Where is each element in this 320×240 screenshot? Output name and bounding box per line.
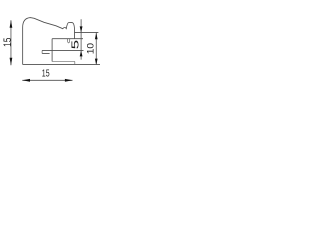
right lower edge xyxy=(74,61,76,64)
dim 15 bottom left arrow xyxy=(22,79,30,82)
rabbet wall xyxy=(51,39,53,62)
dim 10 bottom arrow xyxy=(95,59,98,65)
inner ledge xyxy=(52,60,75,62)
svg-text:5: 5 xyxy=(71,39,82,49)
step left end vertical xyxy=(41,50,43,53)
dim 5 bottom arrow xyxy=(80,50,83,56)
profile outline top xyxy=(23,18,75,65)
dim 5 line xyxy=(80,19,82,59)
svg-text:15: 15 xyxy=(2,38,14,47)
dim 10 line xyxy=(95,32,97,64)
dim 15 bottom right arrow xyxy=(65,79,73,82)
groove xyxy=(67,39,69,43)
dim 15 left line xyxy=(10,20,12,65)
bottom edge xyxy=(23,63,101,65)
lip extension line xyxy=(74,31,98,33)
rabbet ledge line xyxy=(52,38,83,40)
dim 15 bottom line xyxy=(22,79,72,81)
dim 10 top arrow xyxy=(95,33,98,39)
svg-text:15: 15 xyxy=(42,69,50,80)
step line (extension) xyxy=(42,49,83,51)
svg-text:10: 10 xyxy=(85,43,96,54)
small step lower line xyxy=(42,52,50,54)
dim 5 top arrow xyxy=(80,26,83,32)
dim 15 left top arrow xyxy=(10,20,13,28)
dim 15 left bottom arrow xyxy=(10,58,13,65)
